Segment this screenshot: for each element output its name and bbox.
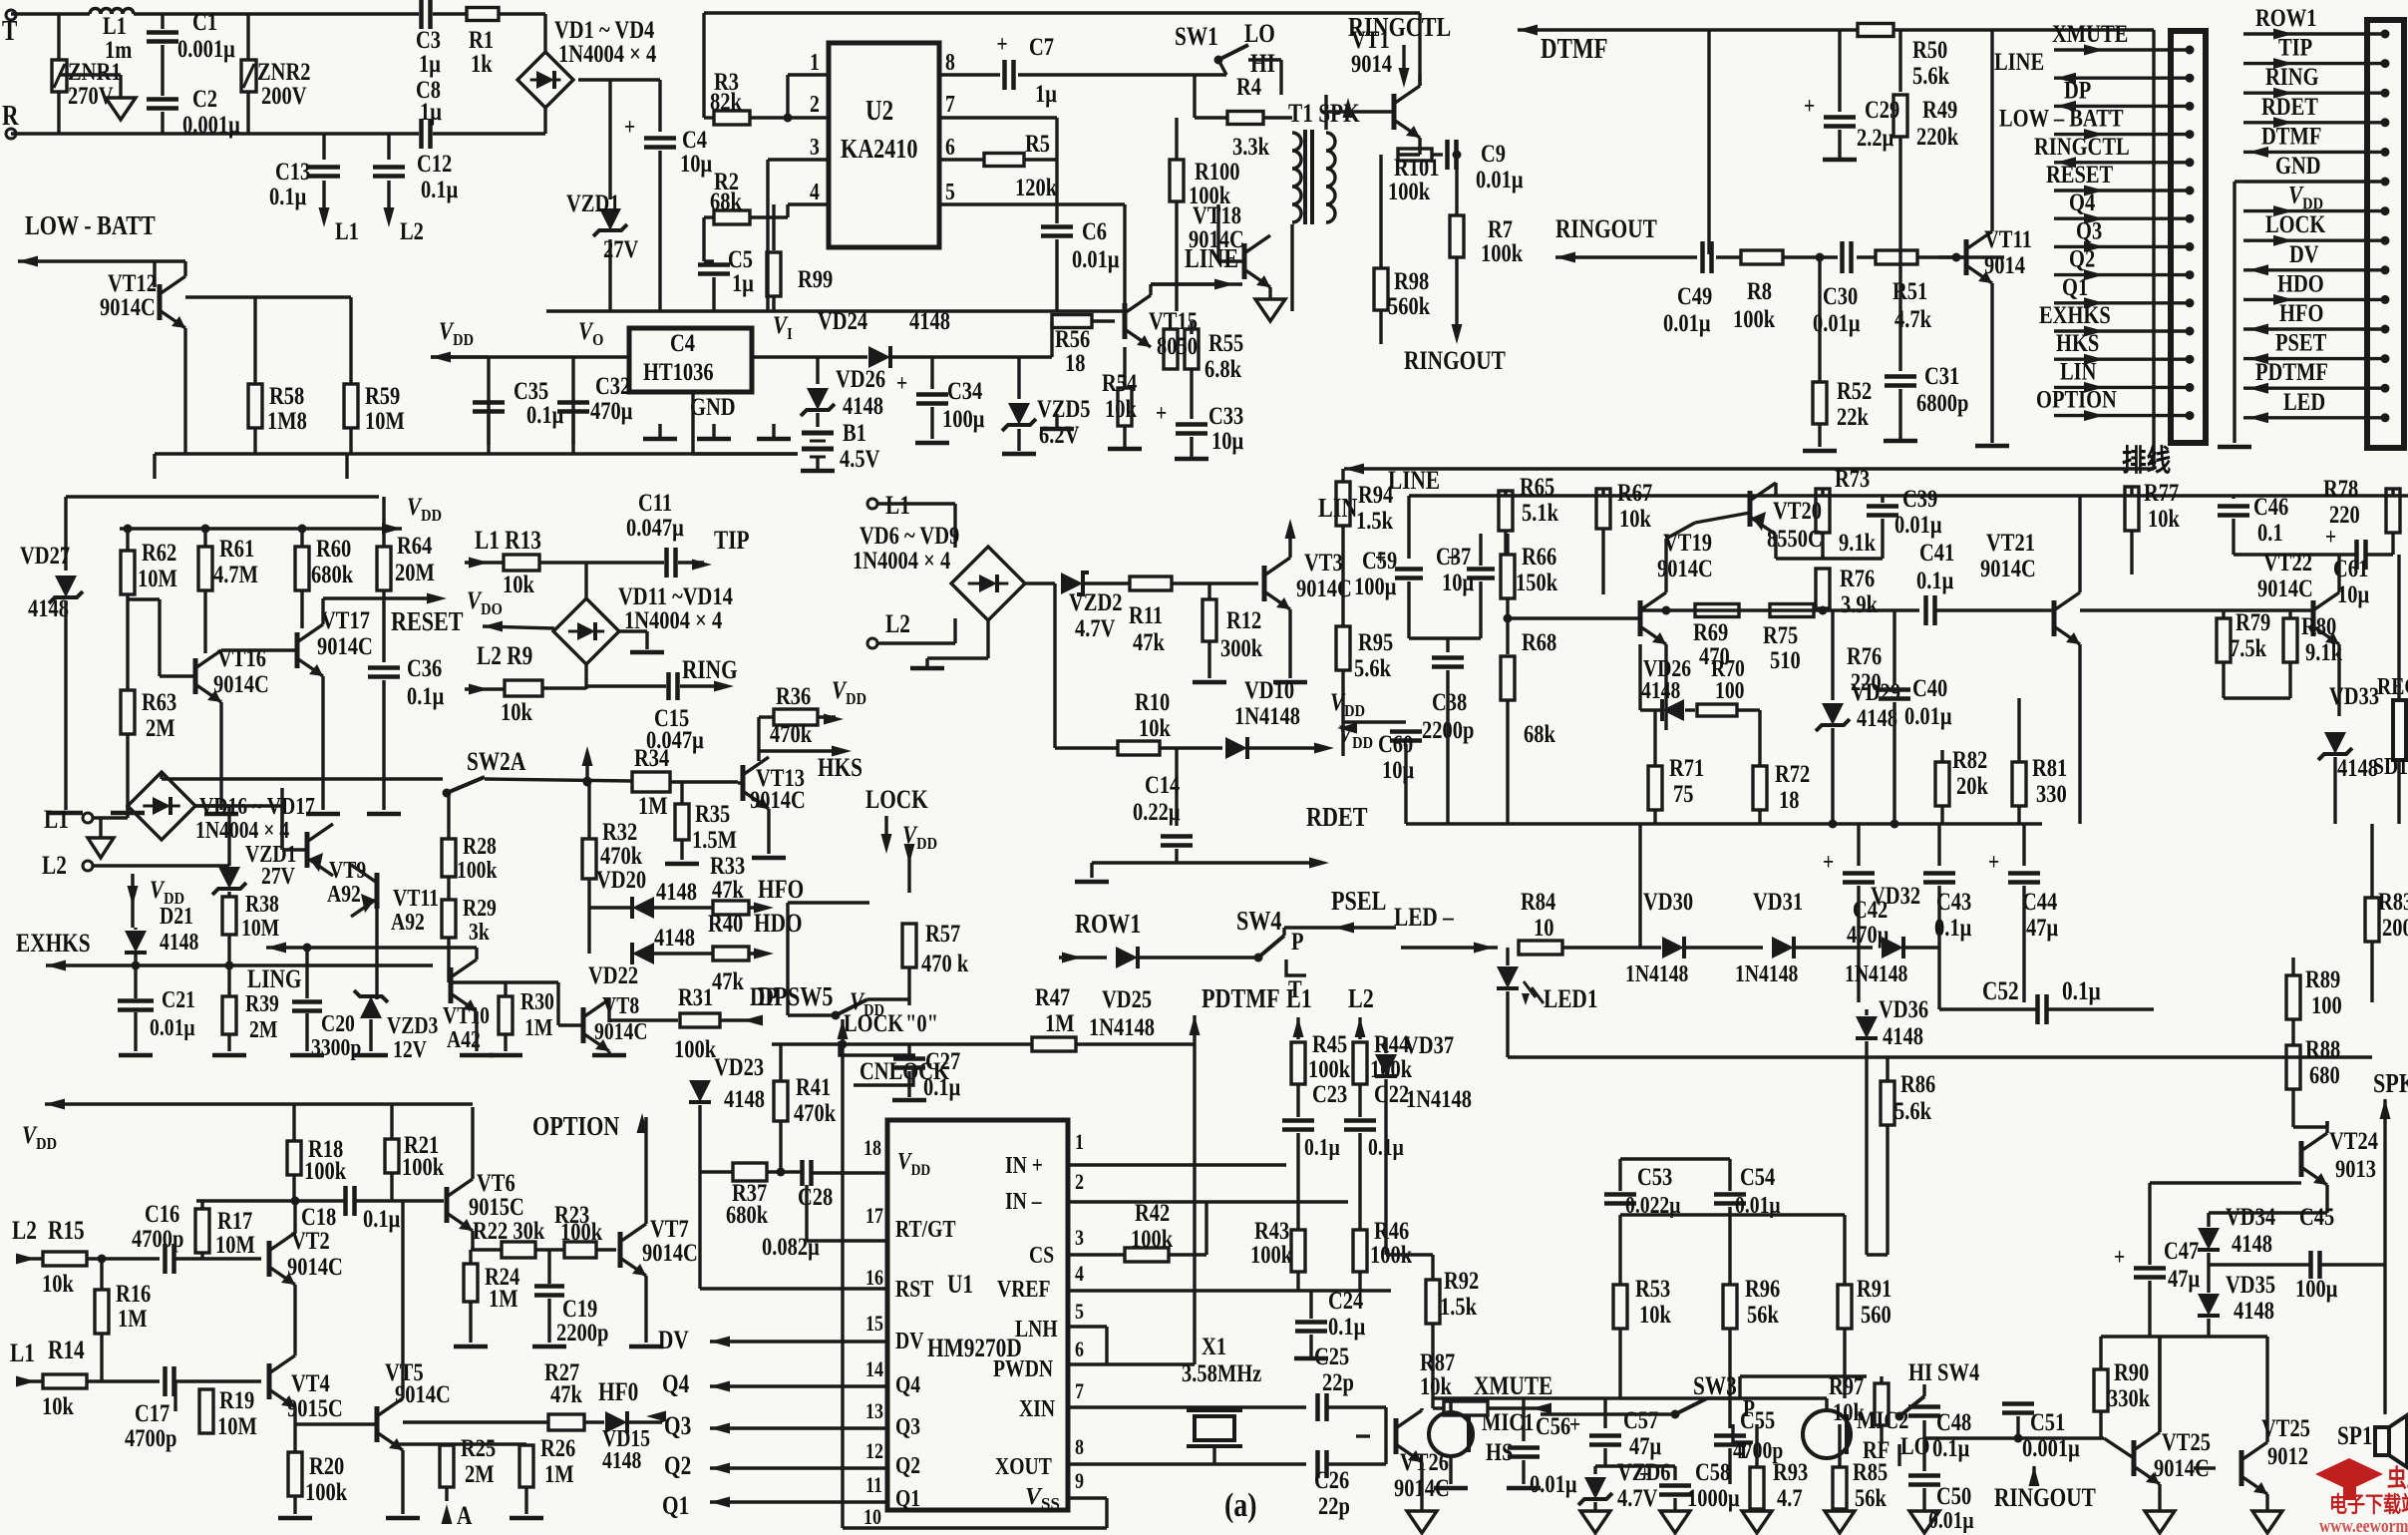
svg-text:18: 18 [1065, 349, 1085, 376]
svg-text:HKS: HKS [818, 754, 862, 782]
svg-text:R78: R78 [2323, 475, 2358, 502]
svg-text:R45: R45 [1312, 1030, 1347, 1057]
svg-text:OPTION: OPTION [532, 1112, 619, 1142]
svg-text:9014C: 9014C [287, 1253, 343, 1280]
svg-text:L1: L1 [10, 1340, 35, 1367]
svg-text:R85: R85 [1853, 1458, 1888, 1485]
svg-text:R80: R80 [2301, 612, 2336, 639]
capacitor C30 [1813, 241, 1875, 336]
label VD20 [596, 866, 646, 893]
svg-text:C34: C34 [947, 377, 982, 404]
capacitor C7 [939, 30, 1226, 107]
svg-text:Q2: Q2 [2069, 245, 2095, 272]
transistor VT5 [295, 1201, 451, 1518]
svg-text:200: 200 [2382, 914, 2408, 941]
ground [1660, 1511, 1690, 1533]
svg-text:(a): (a) [1224, 1485, 1257, 1523]
svg-text:R39: R39 [245, 989, 279, 1016]
receiver REC1 [2373, 555, 2408, 824]
svg-text:VD6 ~ VD9: VD6 ~ VD9 [860, 522, 959, 549]
svg-text:100k: 100k [304, 1157, 346, 1184]
svg-text:C16: C16 [145, 1200, 179, 1227]
speaker SP1 [2337, 1265, 2407, 1467]
svg-text:R93: R93 [1773, 1458, 1808, 1485]
inductor L1 [90, 9, 134, 64]
labels VT25a [2104, 1337, 2211, 1511]
svg-text:C41: C41 [1919, 539, 1954, 566]
svg-text:R63: R63 [142, 688, 176, 715]
resistor R16 [95, 1259, 151, 1381]
resistor R47 [1032, 983, 1195, 1051]
wire botrow [1406, 820, 2042, 829]
svg-text:R64: R64 [397, 532, 432, 559]
svg-text:4148: 4148 [2234, 1297, 2274, 1324]
svg-text:100: 100 [2311, 991, 2342, 1018]
resistor R30 [449, 982, 558, 1055]
svg-text:LOCK: LOCK [2265, 210, 2326, 237]
svg-text:2M: 2M [465, 1460, 495, 1487]
svg-text:1N4148: 1N4148 [1625, 959, 1688, 986]
svg-text:47μ: 47μ [2026, 914, 2058, 941]
node LINEr [1344, 464, 2154, 496]
svg-text:4148: 4148 [2232, 1230, 2272, 1257]
resistor R50 [1709, 24, 2154, 90]
wire toprail [1409, 494, 2408, 497]
svg-text:0.01μ: 0.01μ [1663, 309, 1711, 336]
resistor R10 [1055, 688, 1222, 755]
svg-text:1.5k: 1.5k [1440, 1293, 1477, 1320]
diode VD23 [689, 1053, 765, 1172]
svg-text:4148: 4148 [724, 1085, 765, 1112]
svg-text:VD33: VD33 [2329, 682, 2379, 709]
resistor R22 [502, 1242, 535, 1258]
svg-text:Q2: Q2 [664, 1452, 691, 1480]
resistor R71 [1648, 766, 1662, 810]
resistor R76b [0, 0, 2, 2]
svg-text:C39: C39 [1902, 485, 1937, 512]
svg-text:LOW – BATT: LOW – BATT [1999, 105, 2124, 132]
svg-text:15: 15 [865, 1312, 883, 1336]
svg-text:1M: 1M [524, 1013, 553, 1040]
svg-text:4148: 4148 [2337, 754, 2378, 781]
labels R71 [1655, 710, 1704, 824]
capacitor C3 [416, 0, 441, 77]
resistor R67 [1596, 489, 1610, 529]
wire [2101, 1337, 2267, 1432]
transformer T1 [1288, 95, 1360, 311]
diode VD20 [589, 878, 714, 919]
svg-text:R59: R59 [365, 382, 400, 409]
capacitor C20 [290, 948, 361, 1060]
svg-text:RESET: RESET [391, 607, 464, 637]
wire [578, 80, 660, 311]
svg-text:RINGOUT: RINGOUT [1555, 215, 1657, 243]
resistor R1 [467, 8, 499, 78]
resistor R26 [447, 1434, 575, 1518]
svg-text:10k: 10k [42, 1270, 74, 1297]
ground [1040, 414, 1074, 429]
svg-text:120k: 120k [1015, 174, 1057, 200]
svg-text:PWDN: PWDN [993, 1354, 1053, 1381]
node VDD [382, 493, 442, 534]
capacitor C45 [2209, 1137, 2385, 1302]
svg-text:560: 560 [1861, 1301, 1892, 1328]
svg-text:100k: 100k [1388, 178, 1430, 204]
svg-text:LED: LED [2283, 388, 2325, 415]
svg-text:+: + [2114, 1243, 2125, 1270]
transistor VT11b [351, 865, 439, 999]
transistor VT9 [195, 806, 366, 907]
capacitor C1 [147, 8, 235, 96]
svg-text:T: T [2, 15, 17, 47]
wire [843, 1044, 887, 1528]
node RDET [1075, 803, 1368, 882]
diode VD34 [2198, 1203, 2275, 1265]
resistor R20 [278, 1452, 347, 1518]
svg-text:470k: 470k [794, 1099, 836, 1126]
resistor R42 [1068, 1199, 1206, 1262]
node GND [690, 392, 736, 439]
svg-text:C46: C46 [2253, 493, 2288, 520]
svg-text:R51: R51 [1892, 277, 1927, 304]
resistor R83 [2365, 824, 2408, 1002]
svg-text:0.001μ: 0.001μ [182, 111, 240, 138]
svg-text:PDTMF: PDTMF [2255, 358, 2328, 385]
wire [11, 108, 545, 134]
svg-text:R19: R19 [219, 1386, 254, 1413]
svg-text:C60: C60 [1378, 730, 1413, 757]
svg-text:XOUT: XOUT [995, 1452, 1052, 1479]
svg-text:220k: 220k [1916, 123, 1958, 150]
node L2t [867, 610, 955, 648]
resistor R61 [198, 529, 258, 653]
svg-text:C21: C21 [162, 985, 195, 1012]
svg-text:C27: C27 [925, 1047, 960, 1074]
svg-text:4.7V: 4.7V [1075, 614, 1116, 641]
ground [2145, 1511, 2175, 1533]
svg-text:A92: A92 [391, 908, 425, 935]
resistor R92 [1426, 1255, 1479, 1391]
resistor R62 [121, 529, 177, 690]
svg-text:R55: R55 [1208, 329, 1243, 356]
svg-text:C6: C6 [1082, 217, 1107, 244]
svg-text:C59: C59 [1362, 547, 1397, 574]
svg-text:LINE: LINE [1994, 48, 2044, 75]
svg-text:0.082μ: 0.082μ [762, 1233, 820, 1260]
svg-text:C18: C18 [301, 1203, 336, 1230]
capacitor C36 [367, 598, 444, 814]
capacitor C15 [586, 672, 734, 753]
capacitor C28 [762, 1160, 887, 1260]
svg-text:27V: 27V [261, 862, 295, 889]
svg-text:DTMF: DTMF [2261, 123, 2321, 150]
svg-text:L1: L1 [1286, 984, 1312, 1014]
labels C51 [1924, 1408, 2104, 1461]
svg-text:C44: C44 [2022, 888, 2057, 915]
svg-text:XMUTE: XMUTE [2052, 20, 2128, 47]
resistor R96 [1723, 1275, 1780, 1398]
svg-text:RINGCTL: RINGCTL [2034, 133, 2130, 160]
varistor ZNR1 [52, 14, 122, 134]
svg-text:LOCK: LOCK [865, 786, 928, 814]
svg-text:10M: 10M [215, 1231, 255, 1258]
svg-text:LIN: LIN [2060, 358, 2097, 385]
wire [280, 788, 283, 848]
svg-text:IN +: IN + [1005, 1151, 1043, 1178]
wire [162, 777, 632, 786]
switch SW1 [1175, 20, 1281, 95]
svg-text:10k: 10k [1833, 1398, 1865, 1425]
svg-text:L1 R13: L1 R13 [475, 527, 541, 555]
svg-text:20M: 20M [395, 559, 435, 585]
svg-text:X1: X1 [1202, 1333, 1226, 1359]
capacitor C50 [1908, 1476, 1974, 1534]
svg-text:11: 11 [865, 1473, 882, 1497]
svg-text:C4: C4 [670, 329, 695, 356]
svg-text:100k: 100k [674, 1035, 716, 1062]
zener VZD5 [1002, 357, 1091, 454]
svg-text:RING: RING [2265, 63, 2319, 90]
svg-text:47k: 47k [550, 1380, 582, 1407]
diode VD37 [1375, 1031, 1472, 1255]
svg-text:VD26: VD26 [836, 365, 885, 392]
svg-text:T: T [1737, 1436, 1750, 1463]
labels R78 [2323, 475, 2393, 555]
svg-text:2.2μ: 2.2μ [1857, 124, 1893, 151]
capacitor C58 [1595, 1458, 1740, 1511]
svg-text:VD25: VD25 [1102, 985, 1152, 1012]
capacitor C31 [1884, 257, 1968, 441]
node PSEL [1326, 887, 1396, 933]
svg-text:B1: B1 [843, 419, 866, 446]
svg-text:+: + [1823, 848, 1834, 875]
svg-text:"0": "0" [905, 1009, 938, 1036]
svg-text:4148: 4148 [656, 878, 697, 905]
transistor VT3 [1264, 519, 1352, 682]
svg-text:9014C: 9014C [750, 786, 806, 813]
resistor R3 [704, 68, 829, 125]
node LIN [1318, 494, 1358, 524]
svg-text:100k: 100k [1733, 305, 1775, 332]
ground [1867, 1009, 1888, 1255]
wire vt20 [1666, 483, 1776, 559]
transistor VT15 [1125, 284, 1226, 347]
labels R94 [1343, 469, 1393, 626]
wire XIN [1068, 1407, 1306, 1458]
diode VD35 [2198, 1265, 2275, 1337]
resistor R76a [1816, 565, 1878, 617]
svg-text:9.1k: 9.1k [2305, 638, 2342, 665]
svg-text:4148: 4148 [602, 1446, 641, 1473]
svg-text:C12: C12 [417, 150, 452, 177]
svg-text:L1: L1 [44, 806, 69, 834]
svg-text:VT26: VT26 [1400, 1448, 1449, 1475]
svg-text:U1: U1 [947, 1271, 973, 1299]
resistor R29 [442, 894, 497, 982]
svg-text:C17: C17 [135, 1399, 170, 1426]
svg-text:RINGOUT: RINGOUT [1404, 347, 1506, 375]
svg-text:OPTION: OPTION [2036, 386, 2117, 413]
resistor R53 [1605, 1215, 1671, 1398]
svg-text:1M8: 1M8 [267, 407, 307, 434]
svg-text:0.1μ: 0.1μ [421, 176, 458, 202]
labels R67 [1603, 479, 1652, 594]
svg-text:R98: R98 [1394, 267, 1429, 294]
label VD15 [602, 1424, 650, 1473]
svg-text:R72: R72 [1775, 760, 1810, 787]
resistor R37 [700, 1163, 803, 1228]
svg-text:EXHKS: EXHKS [16, 930, 91, 958]
svg-text:R71: R71 [1669, 754, 1704, 781]
switch SW3 [1541, 1372, 1867, 1463]
node RINGOUT [1404, 324, 1506, 376]
capacitor C18 [301, 1186, 400, 1232]
capacitor C22 [1344, 1080, 1409, 1202]
svg-text:56k: 56k [1747, 1301, 1779, 1328]
svg-text:R60: R60 [316, 535, 351, 562]
svg-text:4148: 4148 [1883, 1022, 1923, 1049]
capacitor C40 [1879, 610, 1952, 824]
capacitor C11 [586, 489, 712, 577]
svg-text:L1: L1 [885, 492, 910, 520]
svg-text:ROW1: ROW1 [1075, 910, 1141, 940]
svg-text:9014: 9014 [1984, 251, 2025, 278]
capacitor C25 [1314, 1343, 1386, 1464]
svg-text:R89: R89 [2305, 965, 2340, 992]
svg-text:10μ: 10μ [1382, 756, 1414, 783]
svg-text:0.047μ: 0.047μ [626, 514, 684, 541]
svg-text:1μ: 1μ [419, 50, 441, 77]
svg-text:100μ: 100μ [1354, 573, 1396, 599]
svg-text:56k: 56k [1855, 1484, 1887, 1511]
svg-text:R62: R62 [142, 539, 176, 566]
svg-text:CS: CS [1029, 1241, 1054, 1268]
wire [1068, 1289, 1391, 1292]
svg-text:C24: C24 [1328, 1287, 1363, 1314]
node L1 [44, 806, 128, 835]
svg-text:VT21: VT21 [1986, 529, 2035, 556]
node L2 [42, 806, 229, 881]
switch SW4 [1236, 907, 1326, 1002]
capacitor C8 [416, 76, 442, 149]
svg-text:560k: 560k [1388, 292, 1430, 319]
resistor R18 [287, 1104, 346, 1206]
svg-text:9014C: 9014C [317, 632, 373, 659]
zener VZD1 [566, 190, 639, 262]
wire [2218, 182, 2251, 447]
transistor VT1 [1326, 13, 1420, 138]
capacitor C47 [2114, 1243, 2166, 1277]
svg-text:22p: 22p [1318, 1492, 1350, 1519]
resistor R85 [1833, 1424, 1888, 1511]
svg-text:330: 330 [2036, 780, 2067, 807]
svg-text:C57: C57 [1623, 1406, 1658, 1433]
svg-text:HDO: HDO [754, 910, 803, 938]
resistor R5 [939, 130, 1057, 200]
svg-text:220: 220 [1851, 668, 1882, 695]
diode VD32 [1845, 882, 1939, 986]
svg-text:IN –: IN – [1005, 1187, 1043, 1214]
capacitor C4 [624, 80, 712, 311]
svg-text:1M: 1M [489, 1285, 518, 1312]
node RINGOUT2 [1555, 215, 1697, 262]
wire [1640, 824, 1939, 948]
resistor R91 [1838, 1215, 1892, 1398]
capacitor C6 [1041, 160, 1120, 311]
wire [196, 1199, 444, 1202]
svg-text:1N4148: 1N4148 [1089, 1013, 1155, 1040]
svg-text:0.01μ: 0.01μ [1476, 166, 1524, 192]
svg-text:L2: L2 [12, 1217, 37, 1245]
svg-text:L2: L2 [400, 217, 424, 244]
transistor VT24 [2301, 1133, 2327, 1185]
svg-text:47k: 47k [1133, 628, 1165, 655]
svg-text:HFO: HFO [758, 876, 804, 904]
svg-text:10k: 10k [1639, 1301, 1671, 1328]
svg-text:R14: R14 [48, 1337, 85, 1364]
svg-text:R90: R90 [2114, 1358, 2149, 1385]
svg-text:EXHKS: EXHKS [2039, 301, 2111, 328]
svg-text:R12: R12 [1226, 606, 1261, 633]
transistor VT26 [1356, 1408, 1450, 1511]
capacitor C14 [1133, 748, 1193, 863]
svg-text:Q3: Q3 [2076, 217, 2102, 244]
resistor R72 [1753, 710, 1810, 824]
svg-text:L2: L2 [1348, 984, 1374, 1014]
svg-text:C54: C54 [1740, 1163, 1775, 1190]
node EXHKS [16, 930, 433, 970]
resistor R2 [704, 168, 829, 261]
svg-text:虫虫: 虫虫 [2387, 1464, 2408, 1491]
resistor R36 [759, 682, 844, 747]
node HDO [754, 910, 803, 938]
resistor R69 [1693, 604, 1739, 670]
svg-text:0.22μ: 0.22μ [1133, 798, 1181, 825]
ground [1909, 1511, 1939, 1533]
svg-text:P: P [1291, 928, 1304, 955]
transistor VT5b [259, 1379, 262, 1382]
node Q4 [662, 1370, 887, 1398]
wire pins-left [700, 1172, 887, 1289]
svg-text:VD27: VD27 [20, 542, 70, 569]
svg-text:510: 510 [1770, 646, 1801, 673]
resistor R23 [554, 1201, 616, 1258]
transistor VT18 [1189, 201, 1285, 321]
svg-text:5.6k: 5.6k [1354, 654, 1391, 681]
resistor R39 [212, 965, 279, 1055]
bridge rectifier VD16-VD17 [128, 772, 315, 843]
svg-text:0.1μ: 0.1μ [1328, 1313, 1365, 1340]
svg-text:R16: R16 [116, 1280, 151, 1307]
svg-text:8050: 8050 [1157, 332, 1198, 359]
svg-text:10k: 10k [1619, 505, 1651, 532]
svg-text:7: 7 [1075, 1379, 1084, 1403]
svg-text:0.01μ: 0.01μ [1904, 702, 1952, 729]
svg-text:2200p: 2200p [556, 1319, 608, 1345]
transistor VT21 [2054, 592, 2080, 644]
svg-text:+: + [624, 113, 635, 140]
capacitor C38 [1409, 638, 1481, 824]
svg-text:XIN: XIN [1019, 1394, 1055, 1421]
svg-text:C58: C58 [1695, 1458, 1730, 1485]
svg-text:6.8k: 6.8k [1204, 355, 1241, 382]
svg-text:Q4: Q4 [662, 1370, 689, 1398]
svg-text:VZD5: VZD5 [1037, 395, 1091, 422]
ground [1407, 1511, 1437, 1533]
svg-text:VD31: VD31 [1753, 888, 1803, 915]
node VDD [1338, 720, 1373, 752]
svg-text:470μ: 470μ [590, 397, 632, 424]
